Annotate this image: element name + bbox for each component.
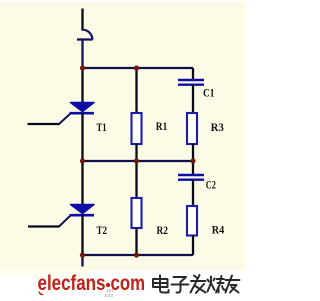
char 子 <box>172 277 189 293</box>
svg-text:R3: R3 <box>211 120 224 134</box>
wire: T1 cathode to mid bus <box>81 113 83 161</box>
char 发 <box>191 275 206 293</box>
wire: C2 to R4 <box>192 180 194 206</box>
wire: mid horizontal bus y=161 <box>83 160 194 162</box>
wire: breaker lower lead <box>81 40 83 69</box>
resistor R3 <box>187 113 197 144</box>
wire: T1 gate lead <box>28 123 60 125</box>
breaker QF bar <box>77 38 93 40</box>
node: top bus / breaker <box>80 65 85 70</box>
wire: C2 top lead <box>192 161 194 175</box>
svg-text:E43: E43 <box>105 293 114 298</box>
thyristor T2 <box>70 205 95 216</box>
char 友 <box>226 276 240 293</box>
svg-text:com: com <box>111 272 146 295</box>
node: mid bus / R3-C2 <box>190 158 195 163</box>
svg-text:R2: R2 <box>157 223 169 237</box>
svg-text:R4: R4 <box>212 223 225 237</box>
capacitor C2 <box>178 175 204 180</box>
svg-text:T1: T1 <box>97 120 107 134</box>
wire: R3 bottom lead <box>192 144 194 161</box>
char 烧 <box>208 276 226 293</box>
wire: R4 bottom lead <box>192 236 194 256</box>
node: mid bus / T <box>80 158 85 163</box>
node: top bus / R1 <box>134 65 139 70</box>
watermark tiny gray text <box>105 288 114 298</box>
wire: top supply lead (black pin) <box>81 9 83 31</box>
wire: R1 top lead <box>135 68 137 113</box>
thyristor T1 <box>70 103 95 114</box>
wire: T1 gate diagonal <box>59 114 71 125</box>
wire: T2 anode lead <box>81 161 83 206</box>
wire: right column drop from top bus <box>192 68 194 80</box>
resistor R2 <box>132 198 142 228</box>
wire: T2 gate diagonal <box>59 216 71 227</box>
svg-text:T2: T2 <box>97 223 108 237</box>
svg-text:C2: C2 <box>206 178 216 192</box>
wire: bottom stub <box>81 255 83 267</box>
node: mid bus / R1-R2 <box>134 158 139 163</box>
resistor R1 <box>132 113 142 144</box>
breaker QF arc <box>83 30 93 40</box>
wire: bottom horizontal bus y=255 <box>83 254 194 256</box>
wire: R2 top lead <box>135 161 137 198</box>
char 电 <box>153 276 169 293</box>
resistor R4 <box>187 206 197 236</box>
wire: T2 cathode to bottom bus <box>81 215 83 255</box>
wire: R1 bottom lead <box>135 144 137 161</box>
wire: R2 bottom lead <box>135 228 137 255</box>
wire: C1 to R3 <box>192 85 194 113</box>
node: bottom bus / R2 <box>134 252 139 257</box>
svg-text:C1: C1 <box>203 86 215 100</box>
wire: T1 anode lead <box>81 68 83 104</box>
wire: top horizontal bus y=68 <box>83 67 194 69</box>
svg-text:R1: R1 <box>156 119 168 133</box>
chinese watermark 电子发烧友 (drawn strokes) <box>153 275 240 293</box>
capacitor C1 <box>178 80 204 85</box>
svg-text:elecfans: elecfans <box>38 272 106 295</box>
watermark logo elecfans.com <box>38 272 146 295</box>
wire: T2 gate lead <box>28 225 60 227</box>
node: bottom bus / T2 <box>80 252 85 257</box>
